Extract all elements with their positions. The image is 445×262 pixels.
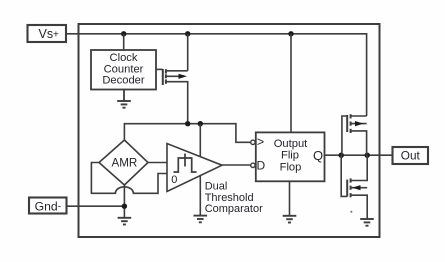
- ground (M3): [360, 219, 374, 226]
- Vs+ terminal box: [28, 25, 67, 42]
- wire comparator supply-to-ground (passes behind triangle): [199, 124, 201, 216]
- clock counter decoder box: [91, 50, 156, 90]
- ground (bridge): [118, 218, 132, 225]
- wire bridge bottom to Gnd node: [123, 185, 125, 218]
- AMR bridge element: [99, 140, 148, 185]
- node Q-gates: [339, 153, 344, 158]
- svg-text:Threshold: Threshold: [205, 192, 254, 204]
- node rail-FF: [288, 31, 293, 36]
- wire Q output to Out: [325, 154, 393, 156]
- svg-text:Decoder: Decoder: [102, 75, 145, 87]
- output flip flop box: [256, 132, 325, 181]
- wire comparator output to D: [222, 164, 251, 166]
- ground (flip flop): [283, 216, 297, 223]
- svg-text:Comparator: Comparator: [205, 203, 263, 215]
- wire rail to FF top: [290, 34, 292, 133]
- svg-text:0: 0: [171, 174, 177, 186]
- svg-text:Counter: Counter: [104, 63, 144, 75]
- IC outline: [79, 24, 380, 237]
- svg-text:Q: Q: [313, 148, 323, 163]
- ground (clock): [117, 101, 131, 108]
- comparator U1: [167, 144, 222, 192]
- wire clock box to ground: [123, 90, 125, 102]
- svg-text:Output: Output: [274, 138, 308, 150]
- Gnd- terminal box: [29, 198, 67, 214]
- node rail-clock: [121, 31, 126, 36]
- wire M1 source to bridge: [166, 82, 188, 124]
- transistor M2 (upper output MOSFET): [342, 116, 347, 155]
- D input bubble: [251, 163, 255, 167]
- transistor M1 (current source MOSFET): [163, 69, 166, 85]
- wire rail to clock box: [123, 34, 125, 50]
- hysteresis symbol: [174, 154, 197, 173]
- clock input bubble: [251, 140, 255, 144]
- svg-text:-: -: [58, 201, 61, 212]
- ground (comparator): [194, 216, 208, 223]
- wire Gnd- to bridge bottom: [67, 205, 125, 207]
- wire FF bottom to ground: [289, 181, 291, 216]
- svg-text:D: D: [257, 159, 266, 173]
- node bridge-comparator: [198, 121, 203, 126]
- node Q-drains: [365, 153, 370, 158]
- svg-text:Flip: Flip: [281, 150, 299, 162]
- wire Vs+ supply rail: [66, 34, 367, 116]
- wire M3 source to ground: [351, 195, 367, 219]
- node Gnd junction: [122, 204, 127, 209]
- transistor M3 (lower output MOSFET): [341, 155, 347, 196]
- svg-text:Dual: Dual: [205, 180, 228, 192]
- wire bridge right branch to comparator upper input: [148, 162, 167, 164]
- svg-text:AMR: AMR: [112, 157, 138, 170]
- svg-text:Flop: Flop: [280, 161, 302, 173]
- wire clock to M1 gate: [156, 68, 163, 70]
- svg-text:>: >: [257, 135, 264, 149]
- stray mark: [350, 211, 352, 213]
- svg-text:+: +: [53, 30, 59, 41]
- svg-text:Out: Out: [401, 148, 421, 162]
- wire bridge top / clock input: [124, 124, 250, 143]
- svg-text:Gnd: Gnd: [35, 199, 58, 213]
- node rail-M1: [185, 31, 190, 36]
- svg-text:Vs: Vs: [39, 27, 54, 41]
- svg-text:Clock: Clock: [110, 52, 138, 64]
- wire bridge left branch to comparator lower input: [91, 163, 167, 194]
- Out terminal box: [393, 147, 429, 164]
- node bridge-M1: [185, 121, 190, 126]
